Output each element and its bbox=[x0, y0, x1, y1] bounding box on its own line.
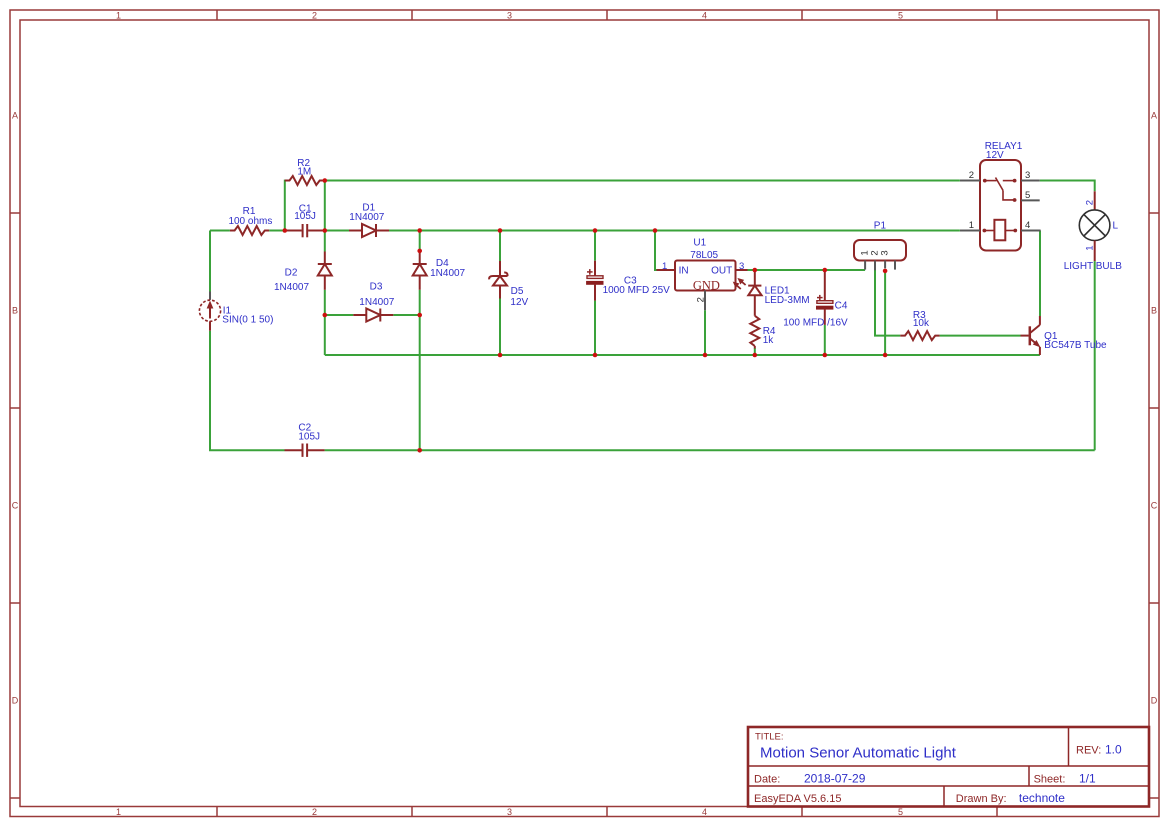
svg-text:GND: GND bbox=[693, 278, 720, 292]
svg-text:4: 4 bbox=[1025, 220, 1030, 231]
svg-text:D: D bbox=[1151, 695, 1158, 705]
svg-text:Motion Senor Automatic Light: Motion Senor Automatic Light bbox=[760, 745, 957, 762]
junction U1 GND rail bbox=[703, 353, 708, 358]
svg-text:OUT: OUT bbox=[711, 265, 732, 276]
wire top rail node C to relay pin 1 bbox=[420, 230, 960, 232]
wire relay pin 4 to Q1 collector bbox=[1039, 231, 1041, 317]
junction P1 ground bbox=[883, 353, 888, 358]
current source I1 bbox=[199, 292, 220, 331]
junction node D bbox=[323, 313, 328, 318]
capacitor C4 bbox=[817, 270, 833, 325]
wire D2 to node D bbox=[324, 290, 326, 315]
relay switch contacts bbox=[983, 178, 1017, 202]
op-amp U1 regulator 78L05 bbox=[657, 261, 748, 311]
wire node B down to D2 bbox=[324, 231, 326, 252]
svg-text:BC547B Tube: BC547B Tube bbox=[1044, 340, 1107, 351]
svg-text:B: B bbox=[1151, 305, 1157, 315]
junction node A bbox=[283, 228, 288, 233]
wire node B to D1 bbox=[325, 230, 349, 232]
svg-text:D3: D3 bbox=[370, 282, 383, 293]
svg-text:2: 2 bbox=[312, 807, 317, 817]
junction node B top bbox=[323, 178, 328, 183]
svg-text:78L05: 78L05 bbox=[690, 250, 718, 261]
resistor R2 bbox=[285, 176, 324, 185]
junction node B bbox=[323, 228, 328, 233]
wire U1 OUT to P1 pin 1 bbox=[747, 269, 865, 271]
relay RELAY1 bbox=[960, 160, 1041, 251]
wire D5 top bbox=[499, 231, 501, 262]
svg-text:3: 3 bbox=[739, 261, 744, 272]
svg-text:12V: 12V bbox=[510, 297, 528, 308]
svg-text:C: C bbox=[12, 500, 19, 510]
wire R1 to node A bbox=[269, 230, 285, 232]
capacitor C3 bbox=[587, 261, 603, 301]
junction C4 top bbox=[823, 268, 828, 273]
svg-text:1M: 1M bbox=[297, 167, 311, 178]
svg-text:2018-07-29: 2018-07-29 bbox=[804, 772, 866, 786]
svg-text:EasyEDA V5.6.15: EasyEDA V5.6.15 bbox=[754, 793, 841, 805]
wire node E down to C2 rail bbox=[419, 315, 421, 450]
svg-text:100 ohms: 100 ohms bbox=[228, 216, 272, 227]
diode D3 bbox=[353, 314, 366, 316]
wire I1 top to R1 bbox=[210, 230, 230, 232]
capacitor C1 bbox=[285, 224, 325, 237]
svg-text:1: 1 bbox=[662, 261, 667, 272]
svg-text:4: 4 bbox=[702, 10, 707, 20]
svg-text:1N4007: 1N4007 bbox=[274, 282, 309, 293]
svg-text:2: 2 bbox=[312, 10, 317, 20]
svg-text:2: 2 bbox=[1084, 200, 1095, 205]
svg-text:P1: P1 bbox=[874, 220, 887, 231]
svg-text:A: A bbox=[1151, 110, 1157, 120]
LED LED1 bbox=[734, 270, 762, 316]
wire C4 bottom to ground rail bbox=[824, 325, 826, 355]
junction D5 ground bbox=[498, 353, 503, 358]
svg-text:1000 MFD 25V: 1000 MFD 25V bbox=[603, 285, 671, 296]
wire I1 top vertical bbox=[209, 231, 211, 292]
zener diode D5 bbox=[489, 261, 507, 299]
svg-text:105J: 105J bbox=[294, 211, 316, 222]
wire R2 node to relay pin 2 bbox=[325, 180, 960, 182]
wire D4 bottom to node E bbox=[419, 290, 421, 315]
svg-text:1/1: 1/1 bbox=[1079, 772, 1096, 786]
svg-text:LED-3MM: LED-3MM bbox=[765, 295, 810, 306]
svg-text:U1: U1 bbox=[693, 237, 706, 248]
wire P1 pin 2 to R3 bbox=[875, 270, 900, 336]
svg-text:Date:: Date: bbox=[754, 774, 780, 786]
svg-text:TITLE:: TITLE: bbox=[755, 732, 784, 743]
wire ground rail bbox=[325, 354, 1040, 356]
svg-text:REV:: REV: bbox=[1076, 745, 1101, 757]
svg-text:3: 3 bbox=[1025, 170, 1030, 181]
relay coil bbox=[983, 220, 1018, 241]
resistor R1 bbox=[230, 226, 269, 235]
svg-text:2: 2 bbox=[695, 297, 706, 302]
wire node A up to R2 bbox=[284, 180, 286, 231]
junction node E bbox=[417, 313, 422, 318]
wire D1 to node C bbox=[389, 230, 420, 232]
svg-text:technote: technote bbox=[1019, 791, 1065, 805]
svg-text:4: 4 bbox=[702, 807, 707, 817]
junction C3 top bbox=[593, 228, 598, 233]
svg-text:3: 3 bbox=[507, 10, 512, 20]
title block bbox=[748, 727, 1149, 807]
svg-text:1: 1 bbox=[116, 807, 121, 817]
svg-text:12V: 12V bbox=[986, 150, 1004, 161]
light bulb L bbox=[1079, 191, 1110, 261]
svg-text:1N4007: 1N4007 bbox=[349, 212, 384, 223]
svg-text:100 MFD /16V: 100 MFD /16V bbox=[783, 318, 848, 329]
junction U1 branch bbox=[653, 228, 658, 233]
junction P1 pin 3 bbox=[883, 269, 888, 274]
wire I1 bottom to C2 bbox=[210, 331, 285, 451]
wire C2 to bulb return bbox=[325, 449, 1095, 451]
wire node B vertical R2 to C1 bbox=[324, 181, 326, 231]
svg-text:5: 5 bbox=[898, 10, 903, 20]
wire light bulb to C2 rail bbox=[1094, 261, 1096, 450]
svg-text:3: 3 bbox=[507, 807, 512, 817]
svg-text:1N4007: 1N4007 bbox=[430, 268, 465, 279]
svg-text:C: C bbox=[1151, 500, 1158, 510]
diode D4 bbox=[419, 252, 421, 265]
wire P1 pin 3 to ground rail bbox=[884, 270, 886, 356]
svg-text:2: 2 bbox=[969, 170, 974, 181]
wire node D down to ground rail bbox=[324, 315, 326, 355]
resistor R3 bbox=[900, 331, 939, 340]
junction C3 ground bbox=[593, 353, 598, 358]
svg-text:SIN(0 1 50): SIN(0 1 50) bbox=[222, 315, 273, 326]
transistor Q1 bbox=[1021, 316, 1040, 355]
svg-text:Drawn By:: Drawn By: bbox=[956, 793, 1007, 805]
svg-text:10k: 10k bbox=[913, 318, 930, 329]
svg-text:Sheet:: Sheet: bbox=[1034, 774, 1066, 786]
wire R3 to Q1 base bbox=[940, 335, 1021, 337]
svg-text:1N4007: 1N4007 bbox=[359, 297, 394, 308]
svg-text:5: 5 bbox=[898, 807, 903, 817]
svg-text:1k: 1k bbox=[763, 335, 775, 346]
wire D3 to node E bbox=[393, 314, 419, 316]
junction U1 OUT bbox=[753, 268, 758, 273]
wire C3 top bbox=[594, 231, 596, 261]
svg-text:IN: IN bbox=[679, 265, 689, 276]
svg-text:D2: D2 bbox=[285, 267, 298, 278]
svg-text:105J: 105J bbox=[298, 432, 320, 443]
svg-text:1: 1 bbox=[969, 220, 974, 231]
junction D4 top bbox=[417, 249, 422, 254]
svg-text:B: B bbox=[12, 305, 18, 315]
svg-text:D5: D5 bbox=[511, 286, 524, 297]
wire relay pin 3 to light bulb bbox=[1040, 181, 1095, 192]
svg-text:C4: C4 bbox=[835, 300, 848, 311]
svg-text:5: 5 bbox=[1025, 190, 1030, 201]
junction D5 top bbox=[498, 228, 503, 233]
connector P1 bbox=[854, 240, 906, 270]
diode D1 bbox=[349, 230, 362, 232]
resistor R4 bbox=[750, 316, 759, 346]
svg-text:1: 1 bbox=[1084, 245, 1095, 250]
svg-text:D: D bbox=[12, 695, 19, 705]
wire D5 bottom bbox=[499, 299, 501, 356]
wire R4 bottom to ground rail bbox=[754, 348, 756, 355]
diode D2 bbox=[324, 252, 326, 265]
wire top rail to U1 pin 1 bbox=[655, 231, 658, 271]
svg-text:LIGHT BULB: LIGHT BULB bbox=[1064, 261, 1122, 272]
svg-text:A: A bbox=[12, 110, 18, 120]
svg-text:1: 1 bbox=[116, 10, 121, 20]
junction node C bbox=[417, 228, 422, 233]
junction R4 ground bbox=[753, 353, 758, 358]
wire node D to D3 bbox=[325, 314, 354, 316]
capacitor C2 bbox=[285, 444, 325, 457]
svg-text:1.0: 1.0 bbox=[1105, 743, 1122, 757]
wire C3 bottom bbox=[594, 301, 596, 355]
junction C4 ground bbox=[823, 353, 828, 358]
svg-text:L: L bbox=[1113, 221, 1119, 232]
svg-text:3: 3 bbox=[879, 250, 890, 255]
junction node E at C2 rail bbox=[417, 448, 422, 453]
wire U1 GND pin to ground rail bbox=[704, 310, 706, 355]
wire node C to D4 top bbox=[419, 231, 421, 251]
